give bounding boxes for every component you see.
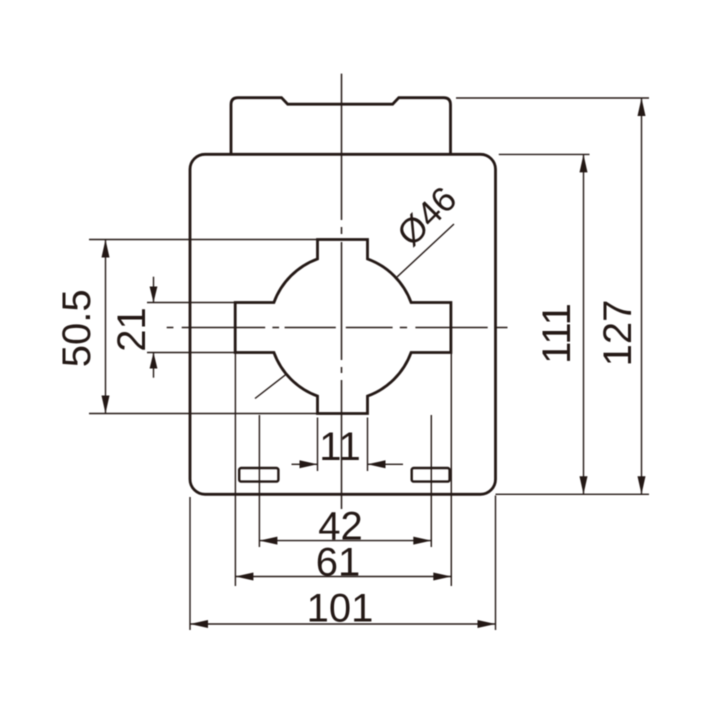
dimension 127 arrow down <box>638 476 646 494</box>
dimension 111 arrow up <box>580 154 588 172</box>
horizontal centerline <box>167 327 508 329</box>
right mounting foot slot <box>412 468 450 482</box>
dimension 21 lower tail <box>153 353 155 378</box>
dimension 127 arrow up <box>638 98 646 116</box>
dimension 50.5 extension line bottom <box>89 413 318 415</box>
svg-text:101: 101 <box>307 587 374 631</box>
dimension 11 extension line right <box>367 418 369 472</box>
svg-text:11: 11 <box>319 425 361 469</box>
dimension 111 line <box>583 154 585 494</box>
dimension 11 left tail <box>292 463 318 465</box>
dimension 61 extension line right <box>450 353 452 587</box>
dia 46 leader line <box>397 224 454 277</box>
dimension 11 extension line left <box>317 418 319 472</box>
dimension 21 extension line top <box>147 302 238 304</box>
dimension 11 right tail <box>368 463 404 465</box>
dimension 42 line <box>259 540 431 542</box>
main body rounded square outline <box>190 154 496 494</box>
dimension 101 extension line right <box>495 496 497 631</box>
leader line to lower-left arc <box>255 374 287 399</box>
dimension 21 arrow up <box>150 353 158 369</box>
svg-text:111: 111 <box>535 303 579 364</box>
dimension 50.5 arrow up <box>102 240 110 258</box>
dimension 11 arrow right <box>300 460 318 468</box>
left mounting foot slot <box>239 468 278 482</box>
dimension 11 arrow left <box>368 460 386 468</box>
dimension 42 extension line left <box>258 415 260 547</box>
dimension 21 extension line bottom <box>147 352 238 354</box>
dimension 101 extension line left <box>189 497 191 630</box>
svg-text:61: 61 <box>316 541 361 585</box>
dimension 101 arrow left <box>190 620 208 628</box>
svg-text:21: 21 <box>110 307 154 352</box>
dimension 42 arrow right <box>413 537 431 545</box>
dimension 50.5 arrow down <box>102 396 110 414</box>
dimension 50.5 extension line top <box>89 239 318 241</box>
central hole: circle with four slots <box>235 240 451 414</box>
top terminal block outline <box>231 98 451 155</box>
svg-text:50.5: 50.5 <box>55 289 99 367</box>
dimension 42 extension line right <box>430 415 432 547</box>
dimension 111 arrow down <box>580 476 588 494</box>
dimension 21 arrow down <box>150 287 158 303</box>
dimension 61 extension line left <box>234 353 236 587</box>
dimension 61 arrow right <box>433 573 451 581</box>
dimension 50.5 line <box>105 240 107 414</box>
shared bottom extension line for 111 and 127 <box>496 493 650 495</box>
vertical centerline <box>341 74 343 509</box>
dimension 127 extension line top <box>456 97 649 99</box>
svg-text:127: 127 <box>596 300 640 367</box>
dimension 101 arrow right <box>478 620 496 628</box>
dimension 21 upper tail <box>153 277 155 303</box>
dimension 61 arrow left <box>235 573 253 581</box>
dimension 61 line <box>235 576 451 578</box>
dimension 127 line <box>641 98 643 494</box>
dimension 42 arrow left <box>259 537 277 545</box>
dimension 111 extension line top <box>499 153 590 155</box>
dimension 101 line <box>190 623 496 625</box>
